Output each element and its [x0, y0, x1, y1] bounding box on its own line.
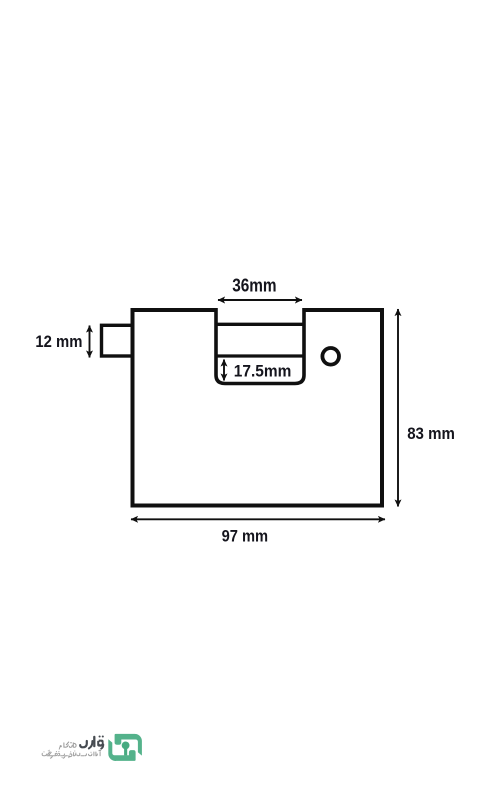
svg-text:97 mm: 97 mm	[222, 526, 269, 545]
watermark logo: green lock emblem top arm	[115, 734, 142, 756]
dimension label 97 mm	[222, 526, 269, 545]
rivet hole circle on body	[322, 348, 339, 365]
watermark logo: keyhole	[122, 742, 130, 756]
dimension label 12 mm	[35, 332, 82, 351]
bolt end protruding from left side of body	[102, 325, 133, 356]
svg-text:83 mm: 83 mm	[407, 424, 455, 443]
watermark small word dot-com	[59, 742, 76, 749]
dimension arrow 83mm (body height)	[397, 309, 399, 507]
svg-text:12 mm: 12 mm	[35, 332, 82, 351]
dimension arrow 36mm (notch width)	[218, 299, 302, 301]
bolt upper line across notch	[216, 323, 304, 326]
dimension label 17.5mm	[234, 361, 291, 380]
padlock body outline	[133, 310, 383, 506]
watermark logo: green lock emblem bottom arm	[108, 739, 135, 761]
dimension label 36mm	[232, 275, 276, 296]
watermark brand word (yaragh)	[80, 735, 104, 748]
dimension arrow 97mm (body width)	[131, 518, 385, 520]
svg-text:36mm: 36mm	[232, 275, 276, 296]
shackle notch (rounded slot in top of body)	[216, 308, 304, 384]
dimension label 83 mm	[407, 424, 455, 443]
bolt lower line across notch	[216, 354, 304, 357]
dimension arrow 17.5mm (notch lower depth)	[223, 360, 225, 381]
dimension arrow 12mm (bolt height)	[89, 326, 91, 358]
svg-text:17.5mm: 17.5mm	[234, 361, 291, 380]
watermark tagline script line	[42, 750, 101, 759]
